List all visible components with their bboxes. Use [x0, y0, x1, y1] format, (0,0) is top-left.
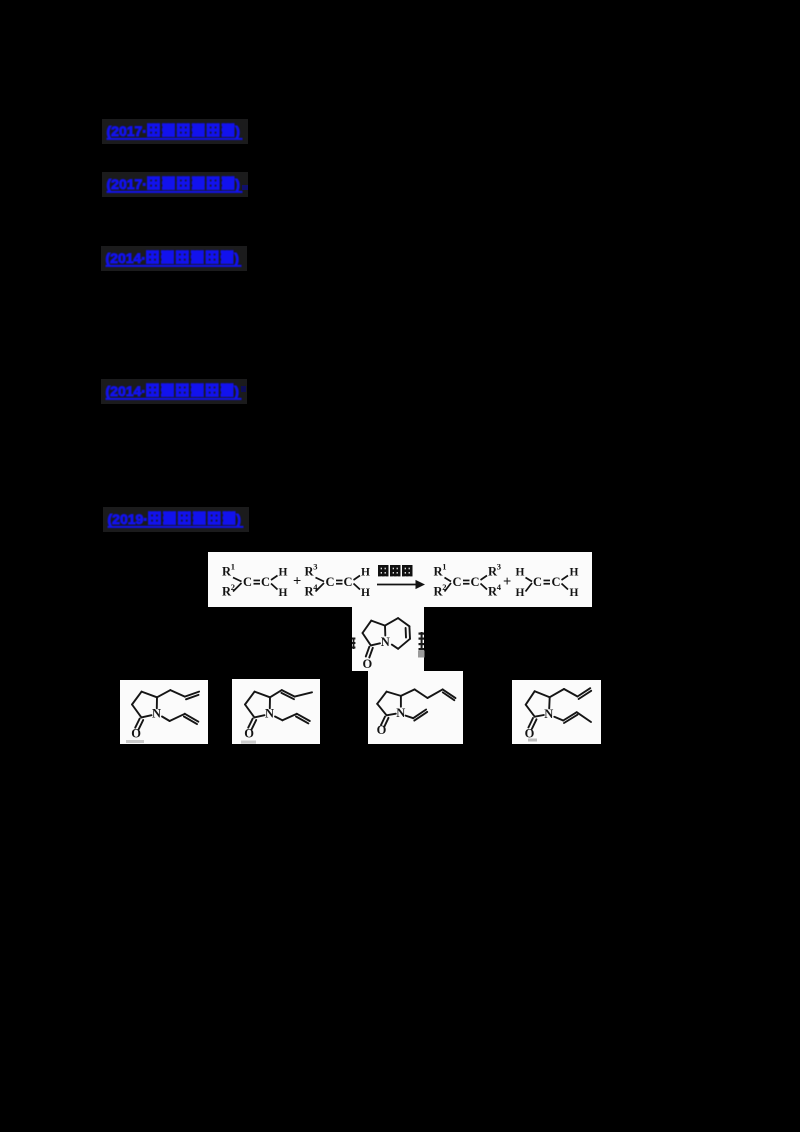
svg-text:C: C [261, 575, 270, 589]
carbonyl C3=O double lines [366, 647, 370, 657]
cut-off glyph fragment left edge [352, 638, 355, 650]
svg-text:O: O [363, 657, 373, 671]
N allyl chain [275, 717, 283, 721]
svg-text:(2017·: (2017· [107, 176, 147, 192]
svg-text:(2017·: (2017· [107, 123, 147, 139]
C5 allyl chain [157, 690, 170, 697]
blue link line 3: (2014·XX高考真题) [101, 246, 247, 271]
svg-text:): ) [234, 383, 239, 399]
pyrrolidinone ring [255, 692, 270, 698]
svg-text:C: C [471, 575, 480, 589]
white image box 2: indolizidinone bicyclic product [352, 607, 424, 671]
reactant 1: R1R2C=CH2 [222, 562, 288, 600]
gray scan artifact [126, 740, 144, 743]
small dark dot after line 4 [241, 386, 246, 392]
svg-text:3: 3 [313, 562, 317, 572]
svg-text:C: C [243, 575, 252, 589]
carbonyl C=O [135, 719, 140, 728]
white image box A: 1,5-diallyl-2-pyrrolidinone [120, 680, 208, 744]
pyrrolidinone ring [535, 691, 550, 697]
white image box D: 5-allyl-1-propenyl-2-pyrrolidinone [512, 680, 601, 744]
svg-text:3: 3 [497, 562, 501, 572]
hidden defs: pseudo CJK glyph blocks [0, 0, 1, 1]
6-ring [385, 618, 398, 626]
blue link line 5: (2019·XX高考真题) [103, 507, 249, 532]
svg-text:): ) [235, 123, 240, 139]
svg-text:H: H [279, 587, 288, 599]
svg-text:H: H [279, 567, 288, 579]
svg-text:N: N [265, 707, 274, 721]
svg-text:+: + [503, 574, 511, 590]
svg-text:O: O [131, 727, 141, 741]
carbonyl C=O [381, 717, 385, 725]
svg-text:): ) [235, 176, 240, 192]
carbonyl C=O [248, 719, 253, 728]
blue link line 2: (2017·XX高考真题) [102, 172, 248, 197]
svg-text:1: 1 [442, 562, 446, 572]
pyrrolidinone ring [142, 692, 157, 698]
5-ring lactam part [363, 618, 411, 657]
svg-text:(2014·: (2014· [106, 250, 146, 266]
svg-text:): ) [236, 511, 241, 527]
gray scan artifact [241, 741, 256, 744]
svg-text:C: C [453, 575, 462, 589]
catalyst label (3 CJK glyphs) [378, 565, 389, 576]
svg-text:H: H [570, 587, 579, 599]
svg-text:C: C [344, 575, 353, 589]
svg-text:C: C [552, 575, 561, 589]
svg-text:(2014·: (2014· [106, 383, 146, 399]
gray scan artifact [528, 739, 537, 742]
svg-text:H: H [570, 567, 579, 579]
blue link line 4: (2014·XX高考真题) [101, 379, 247, 404]
small dark dot after line 2 [242, 185, 248, 190]
N propenyl chain [554, 717, 563, 721]
svg-text:C: C [533, 575, 542, 589]
C5 butenyl chain [401, 689, 415, 696]
svg-text:(2019·: (2019· [108, 511, 148, 527]
svg-text:N: N [544, 707, 553, 721]
white image box C: 5-(3-butenyl)-1-vinyl-2-pyrrolidinone [368, 671, 463, 744]
pyrrolidinone ring [387, 692, 401, 696]
blue link line 1: (2017·XX高考真题) [102, 119, 248, 144]
product 1: R1R2C=CR3R4 [434, 562, 502, 599]
svg-text:H: H [361, 567, 370, 579]
product 2: ethylene H2C=CH2 [516, 567, 579, 600]
svg-text:O: O [244, 727, 254, 741]
C6=C7 double bond inner line [405, 628, 407, 638]
gray remnant square [418, 651, 425, 658]
C5 allyl chain [550, 689, 564, 697]
svg-text:N: N [396, 706, 405, 720]
svg-text:H: H [516, 587, 525, 599]
reaction arrow [377, 584, 417, 586]
reactant 2: R3R4C=CH2 [305, 562, 371, 600]
svg-text:+: + [293, 574, 301, 590]
white image box 1: olefin metathesis reaction scheme [208, 552, 592, 607]
carbonyl C=O [528, 718, 533, 728]
N vinyl group [406, 716, 414, 719]
cut-off glyph fragment right edge [419, 632, 425, 650]
svg-text:H: H [361, 587, 370, 599]
svg-text:O: O [377, 723, 387, 737]
N allyl chain [162, 717, 170, 722]
svg-text:1: 1 [231, 562, 235, 572]
svg-text:4: 4 [497, 582, 502, 592]
svg-text:): ) [234, 250, 239, 266]
svg-text:N: N [381, 635, 390, 649]
C5 propenyl chain [270, 690, 282, 697]
svg-text:H: H [516, 567, 525, 579]
white image box B: 5-propenyl-1-allyl-2-pyrrolidinone [232, 679, 320, 744]
svg-text:N: N [152, 707, 161, 721]
svg-text:C: C [326, 575, 335, 589]
